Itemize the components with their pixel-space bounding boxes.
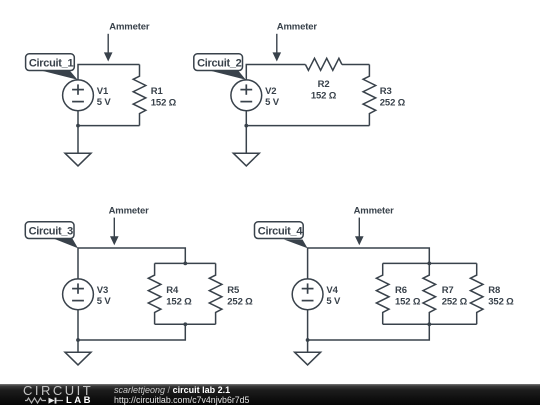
- ground: [295, 352, 321, 365]
- name label Circuit_4: [255, 222, 304, 239]
- wire bottom (Circuit_3): [78, 324, 185, 340]
- svg-text:R2: R2: [318, 79, 330, 90]
- value label R2 152 &#937;: [311, 79, 337, 102]
- value label R5 252 &#937;: [227, 285, 253, 307]
- value label R6 152 &#937;: [395, 285, 421, 307]
- wire bottom (Circuit_1): [78, 125, 140, 127]
- resistor R5: [209, 263, 222, 324]
- wire parallel bottom rail (Circuit_3): [155, 323, 216, 325]
- resistor R3: [363, 65, 376, 126]
- svg-text:5 V: 5 V: [326, 296, 341, 307]
- junction node: [244, 124, 248, 128]
- wire top (Circuit_4): [308, 248, 430, 279]
- voltage source V2: [231, 80, 262, 111]
- footer bar: [0, 384, 540, 405]
- ammeter arrow (Circuit_3): [110, 218, 119, 246]
- junction node: [183, 322, 187, 326]
- label pointer Circuit_4: [284, 240, 308, 249]
- ground: [65, 352, 91, 365]
- ammeter arrow (Circuit_2): [273, 34, 282, 62]
- value label V1 5 V: [97, 86, 112, 108]
- wire source bottom (Circuit_3): [77, 310, 79, 340]
- voltage source V3: [63, 279, 94, 310]
- resistor R6: [376, 263, 389, 324]
- label pointer Circuit_2: [209, 70, 246, 79]
- ground: [65, 153, 91, 166]
- svg-text:R7: R7: [442, 285, 454, 296]
- wire top left (Circuit_2): [246, 65, 305, 80]
- svg-text:Circuit_3: Circuit_3: [29, 225, 74, 237]
- footer title line: [114, 386, 230, 395]
- resistor R1: [133, 65, 146, 126]
- svg-text:152 Ω: 152 Ω: [311, 91, 337, 102]
- wire top (Circuit_3): [78, 248, 185, 279]
- svg-text:5 V: 5 V: [97, 97, 112, 108]
- svg-text:252 Ω: 252 Ω: [227, 296, 253, 307]
- resistor R4: [148, 263, 161, 324]
- wire bottom (Circuit_4): [308, 324, 430, 340]
- svg-text:V4: V4: [326, 285, 338, 296]
- wire bottom (Circuit_2): [246, 125, 369, 127]
- resistor R7: [423, 263, 436, 324]
- CircuitLab logo LAB text: [66, 397, 93, 404]
- svg-text:Ammeter: Ammeter: [109, 205, 150, 216]
- value label R3 252 &#937;: [380, 86, 406, 108]
- value label V2 5 V: [265, 86, 280, 108]
- svg-text:R5: R5: [227, 285, 240, 296]
- svg-text:152 Ω: 152 Ω: [395, 296, 421, 307]
- svg-text:5 V: 5 V: [97, 296, 112, 307]
- value label R4 152 &#937;: [166, 285, 192, 307]
- wire ground stem (Circuit_2): [245, 126, 247, 154]
- svg-text:Circuit_2: Circuit_2: [197, 57, 242, 69]
- junction node: [76, 338, 80, 342]
- wire ground stem (Circuit_3): [77, 340, 79, 352]
- svg-text:152 Ω: 152 Ω: [151, 97, 177, 108]
- svg-text:Ammeter: Ammeter: [354, 205, 395, 216]
- wire source bottom (Circuit_1): [77, 111, 79, 126]
- value label R1 152 &#937;: [151, 86, 177, 108]
- value label R7 252 &#937;: [442, 285, 468, 307]
- svg-text:5 V: 5 V: [265, 97, 280, 108]
- svg-text:352 Ω: 352 Ω: [488, 296, 514, 307]
- CircuitLab logo wordmark: [23, 386, 93, 396]
- resistor R8: [470, 263, 483, 324]
- label pointer Circuit_1: [40, 70, 78, 79]
- ammeter arrow (Circuit_4): [355, 218, 364, 246]
- svg-text:Ammeter: Ammeter: [277, 22, 318, 33]
- voltage source V1: [63, 80, 94, 111]
- junction node: [427, 262, 431, 266]
- wire ground stem (Circuit_1): [77, 126, 79, 154]
- wire source bottom (Circuit_4): [307, 310, 309, 340]
- svg-text:Circuit_4: Circuit_4: [258, 225, 304, 237]
- svg-text:Circuit_1: Circuit_1: [29, 57, 74, 69]
- junction node: [183, 262, 187, 266]
- voltage source V4: [292, 279, 323, 310]
- wire parallel bottom rail (Circuit_4): [383, 323, 477, 325]
- wire ground stem (Circuit_4): [307, 340, 309, 352]
- ammeter arrow (Circuit_1): [104, 34, 113, 62]
- name label Circuit_3: [25, 222, 74, 239]
- value label V3 5 V: [97, 285, 112, 307]
- label pointer Circuit_3: [54, 239, 78, 249]
- wire source bottom (Circuit_2): [245, 111, 247, 126]
- svg-text:R8: R8: [488, 285, 500, 296]
- svg-text:Ammeter: Ammeter: [109, 22, 150, 33]
- svg-text:V1: V1: [97, 86, 109, 97]
- junction node: [427, 322, 431, 326]
- name label Circuit_2: [194, 54, 243, 71]
- svg-text:R1: R1: [151, 86, 164, 97]
- svg-text:252 Ω: 252 Ω: [442, 296, 468, 307]
- junction node: [306, 338, 310, 342]
- svg-text:252 Ω: 252 Ω: [380, 97, 406, 108]
- wire top (Circuit_1): [78, 65, 140, 80]
- resistor R2: [305, 58, 342, 70]
- wire parallel top rail (Circuit_4): [383, 262, 477, 264]
- name label Circuit_1: [26, 54, 75, 71]
- CircuitLab logo resistor-diode glyph: [25, 397, 64, 405]
- value label R8 352 &#937;: [488, 285, 514, 307]
- wire top right (Circuit_2): [342, 64, 370, 66]
- svg-text:R6: R6: [395, 285, 407, 296]
- footer url line: [114, 396, 249, 405]
- svg-text:V3: V3: [97, 285, 108, 296]
- junction node: [76, 124, 80, 128]
- svg-text:V2: V2: [265, 86, 276, 97]
- svg-text:R4: R4: [166, 285, 179, 296]
- value label V4 5 V: [326, 285, 341, 307]
- ground: [233, 153, 259, 166]
- svg-text:152 Ω: 152 Ω: [166, 296, 192, 307]
- wire parallel top rail (Circuit_3): [155, 262, 216, 264]
- svg-text:R3: R3: [380, 86, 392, 97]
